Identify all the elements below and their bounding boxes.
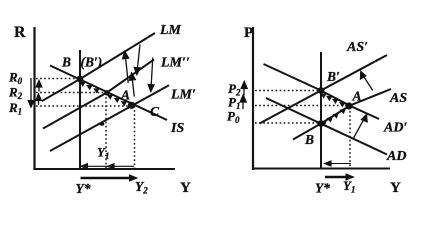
point B' dot	[318, 87, 325, 94]
svg-text:Y1: Y1	[343, 178, 355, 195]
svg-text:B′: B′	[326, 69, 340, 84]
arrow from AD toward AD'	[353, 119, 364, 139]
svg-text:AS: AS	[389, 91, 407, 106]
dotted P0 line	[255, 122, 321, 124]
svg-text:AD′: AD′	[383, 121, 407, 136]
thick arrow Y* to Y1 below right axis	[325, 176, 348, 178]
left R axis	[33, 27, 35, 170]
chevrons along IS from B to C	[79, 82, 85, 87]
dotted Y2 vertical	[134, 106, 136, 168]
svg-text:Y1: Y1	[97, 145, 109, 162]
shift arrow up LM''→LM	[126, 58, 129, 83]
svg-text:IS: IS	[170, 121, 184, 136]
shift arrow down LM→LM''	[138, 45, 141, 68]
svg-text:A: A	[352, 89, 362, 104]
dotted P1 line	[255, 105, 349, 107]
dotted R0 line	[36, 78, 80, 80]
AD curve	[266, 98, 387, 155]
small up arrow P0 to P1	[242, 101, 244, 109]
svg-text:(B′): (B′)	[81, 55, 103, 70]
svg-text:LM: LM	[159, 23, 182, 38]
svg-text:R: R	[14, 24, 26, 41]
thick arrow Y* to Y2 below axis	[81, 177, 132, 179]
dotted Y1 vertical right	[349, 107, 351, 168]
svg-text:Y2: Y2	[135, 179, 148, 196]
svg-text:Y*: Y*	[76, 181, 91, 196]
point C dot	[128, 102, 135, 109]
LM'' curve	[43, 60, 154, 129]
chevrons along AD' B' to A	[320, 93, 326, 98]
AS curve	[293, 89, 391, 140]
dotted R2 line	[36, 92, 107, 94]
small up arrow P1 to P2	[243, 88, 245, 96]
svg-text:Y: Y	[180, 180, 191, 196]
right Y axis	[252, 168, 390, 170]
arrow from AS toward AS'	[363, 76, 373, 91]
svg-text:AD: AD	[386, 149, 406, 164]
speck on LM' line	[100, 122, 105, 126]
svg-text:LM′: LM′	[170, 88, 196, 103]
LM curve	[42, 33, 155, 101]
dotted Y1 vertical left	[105, 93, 107, 168]
right P axis	[252, 27, 391, 170]
shift arrow up LM'→LM''	[132, 80, 134, 97]
svg-text:LM′′: LM′′	[160, 56, 190, 71]
svg-text:C: C	[150, 104, 160, 119]
svg-text:Y*: Y*	[315, 181, 330, 196]
down arrow left of R axis	[30, 78, 32, 101]
svg-text:B: B	[304, 132, 314, 147]
AD' curve	[264, 64, 380, 119]
svg-text:B: B	[61, 55, 71, 70]
svg-text:AS′: AS′	[346, 40, 368, 55]
thin arrow Y2 to Y1 to Y* above axis	[82, 165, 134, 167]
right Y* vertical line	[320, 52, 322, 169]
LM' curve	[50, 85, 169, 151]
point A dot left	[104, 90, 109, 95]
svg-text:R2: R2	[8, 85, 23, 102]
small up arrow R1 to R2	[38, 99, 40, 106]
thin arrow Y1 to Y* above right axis	[326, 163, 352, 165]
point A dot right	[345, 102, 352, 109]
dotted R1 line	[36, 105, 131, 107]
dotted P2 line	[255, 90, 321, 92]
IS curve	[50, 66, 167, 121]
svg-text:Y: Y	[390, 180, 401, 196]
small up arrow R2 to R0	[38, 85, 40, 92]
chevrons along AS B to A	[320, 121, 327, 127]
shift arrow down LM''→LM'	[151, 58, 153, 86]
svg-text:A: A	[120, 88, 130, 103]
point B dot right	[318, 120, 325, 127]
left Y axis	[34, 168, 176, 170]
svg-text:R1: R1	[8, 100, 22, 117]
svg-text:P: P	[244, 25, 253, 41]
AS' curve	[260, 55, 388, 124]
left Y* vertical line	[79, 50, 81, 169]
point B dot left	[77, 76, 84, 83]
